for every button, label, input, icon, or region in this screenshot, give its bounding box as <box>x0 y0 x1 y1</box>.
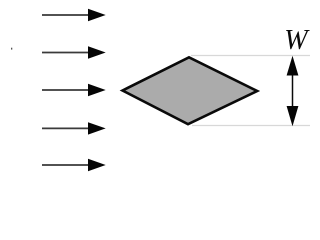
svg-text:W: W <box>284 25 310 56</box>
flow arrow 3 <box>42 84 106 96</box>
extension line bottom <box>192 125 310 127</box>
flow arrow 1 <box>42 9 106 21</box>
flow arrow 2 <box>42 46 106 58</box>
flow arrow 5 <box>42 159 106 171</box>
speck <box>11 48 12 50</box>
dimension arrow W (double-headed) <box>287 56 299 127</box>
diamond airfoil <box>123 57 258 124</box>
flow arrow 4 <box>42 122 106 134</box>
label W <box>284 25 310 56</box>
extension line top <box>191 55 310 57</box>
